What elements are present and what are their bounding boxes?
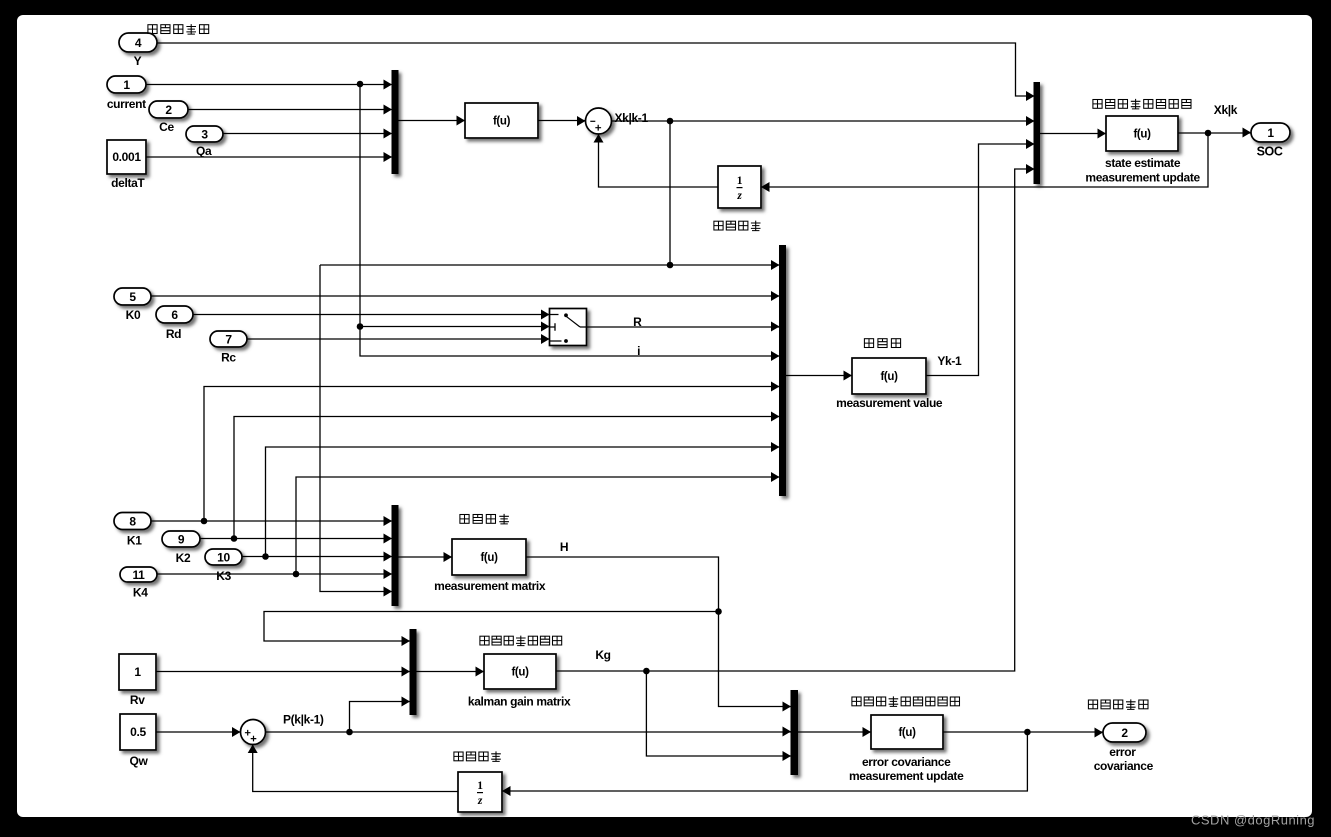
svg-text:K2: K2 xyxy=(176,551,191,565)
svg-text:error: error xyxy=(1109,745,1136,759)
svg-text:i: i xyxy=(637,344,640,358)
svg-text:Qa: Qa xyxy=(196,144,212,158)
svg-text:2: 2 xyxy=(165,103,172,117)
svg-text:measurement update: measurement update xyxy=(849,769,964,783)
svg-text:11: 11 xyxy=(133,568,146,582)
svg-text:0.5: 0.5 xyxy=(130,725,146,739)
svg-text:f(u): f(u) xyxy=(480,552,498,564)
svg-text:5: 5 xyxy=(129,290,136,304)
svg-text:measurement matrix: measurement matrix xyxy=(434,579,546,593)
svg-text:z: z xyxy=(477,795,483,807)
svg-text:Qw: Qw xyxy=(130,754,149,768)
svg-text:10: 10 xyxy=(217,550,230,564)
svg-text:CSDN @dogRuning: CSDN @dogRuning xyxy=(1191,813,1315,828)
svg-text:9: 9 xyxy=(178,532,185,546)
svg-text:z: z xyxy=(736,190,742,202)
svg-text:Rv: Rv xyxy=(130,693,145,707)
svg-text:1: 1 xyxy=(737,175,743,187)
svg-text:Yk-1: Yk-1 xyxy=(937,354,962,368)
svg-text:K0: K0 xyxy=(126,308,141,322)
svg-text:1: 1 xyxy=(477,780,483,792)
svg-text:f(u): f(u) xyxy=(880,371,898,383)
svg-text:R: R xyxy=(633,315,642,329)
svg-text:measurement value: measurement value xyxy=(836,396,943,410)
svg-text:8: 8 xyxy=(129,514,136,528)
svg-text:Xk|k: Xk|k xyxy=(1214,103,1238,117)
svg-text:6: 6 xyxy=(171,308,178,322)
svg-text:Y: Y xyxy=(134,54,142,68)
svg-text:f(u): f(u) xyxy=(511,667,529,679)
svg-text:K3: K3 xyxy=(216,569,231,583)
svg-text:Xk|k-1: Xk|k-1 xyxy=(615,111,649,125)
svg-text:1: 1 xyxy=(1267,126,1274,140)
svg-text:Kg: Kg xyxy=(595,648,610,662)
svg-text:K1: K1 xyxy=(127,534,142,548)
svg-text:4: 4 xyxy=(135,36,142,50)
svg-text:deltaT: deltaT xyxy=(111,176,145,190)
svg-text:1: 1 xyxy=(123,78,130,92)
svg-text:1: 1 xyxy=(134,665,141,679)
svg-text:kalman gain matrix: kalman gain matrix xyxy=(468,694,571,708)
svg-text:state estimate: state estimate xyxy=(1105,156,1181,170)
svg-text:3: 3 xyxy=(201,127,208,141)
svg-text:P(k|k-1): P(k|k-1) xyxy=(283,713,324,727)
svg-text:Ce: Ce xyxy=(159,120,174,134)
svg-text:f(u): f(u) xyxy=(898,727,916,739)
svg-text:current: current xyxy=(107,97,146,111)
svg-text:measurement update: measurement update xyxy=(1085,170,1200,184)
svg-text:covariance: covariance xyxy=(1094,759,1154,773)
svg-text:K4: K4 xyxy=(133,585,148,599)
svg-text:7: 7 xyxy=(225,332,232,346)
svg-text:0.001: 0.001 xyxy=(112,150,141,164)
svg-text:H: H xyxy=(560,540,568,554)
svg-text:Rc: Rc xyxy=(221,351,236,365)
svg-text:f(u): f(u) xyxy=(493,116,511,128)
svg-text:SOC: SOC xyxy=(1257,145,1283,159)
svg-text:Rd: Rd xyxy=(166,327,181,341)
svg-text:error covariance: error covariance xyxy=(862,755,951,769)
svg-text:2: 2 xyxy=(1121,726,1128,740)
svg-text:f(u): f(u) xyxy=(1133,129,1151,141)
